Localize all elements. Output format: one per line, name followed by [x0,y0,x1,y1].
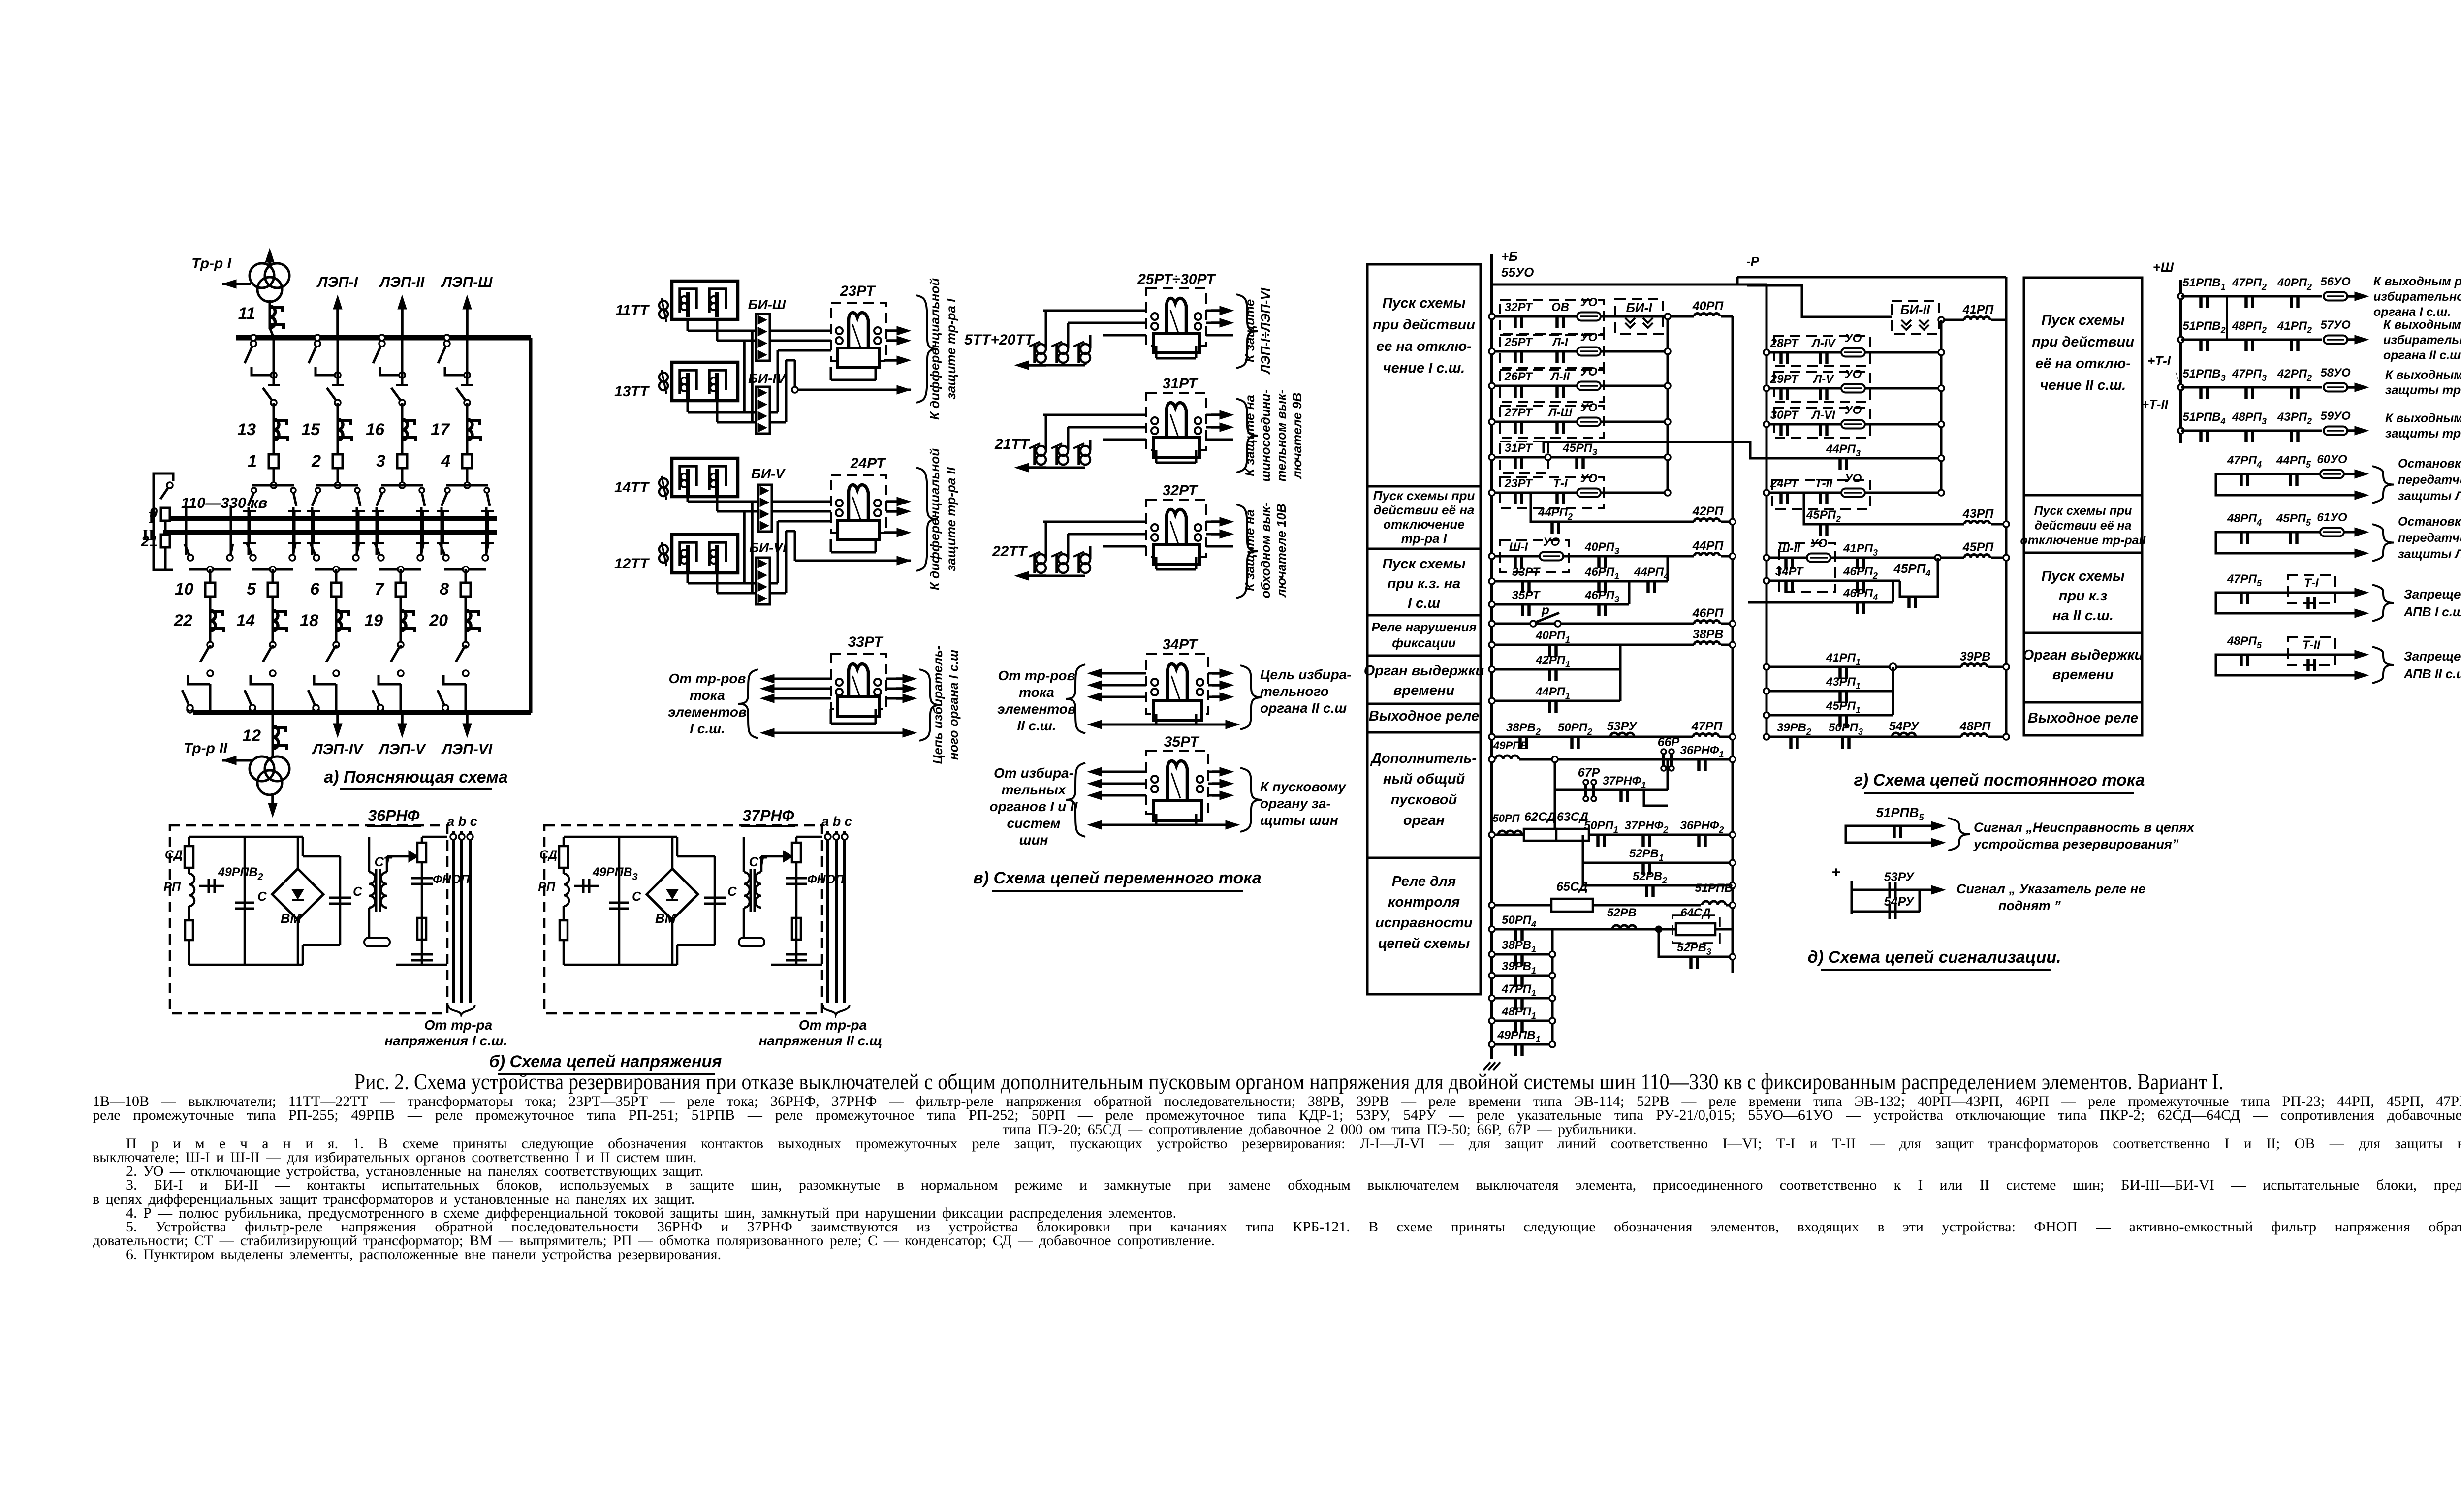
svg-text:18: 18 [300,611,318,630]
svg-text:действии её на: действии её на [2034,519,2131,533]
svg-text:11ТТ: 11ТТ [615,302,650,318]
svg-text:+Т-II: +Т-II [2142,397,2169,411]
svg-text:От тр-ров: От тр-ров [669,671,746,686]
svg-text:контроля: контроля [1388,894,1460,910]
svg-text:Орган выдержки: Орган выдержки [2023,647,2144,663]
svg-text:48РП1: 48РП1 [1501,1005,1536,1021]
svg-text:От тр-ра: От тр-ра [424,1017,492,1033]
svg-text:57УО: 57УО [2320,318,2351,332]
svg-text:38РВ: 38РВ [1693,628,1724,641]
svg-text:45РП1: 45РП1 [1826,699,1861,715]
svg-text:29РТ: 29РТ [1770,373,1799,386]
svg-text:49РПВ: 49РПВ [1493,739,1528,752]
svg-text:33РТ: 33РТ [848,634,884,650]
svg-text:б) Схема цепей напряжения: б) Схема цепей напряжения [489,1052,722,1071]
svg-text:50РП3: 50РП3 [1829,721,1863,737]
svg-text:С: С [257,889,267,904]
svg-text:6: 6 [310,580,320,598]
svg-text:40РП1: 40РП1 [1535,629,1570,645]
svg-text:52РВ3: 52РВ3 [1677,941,1711,957]
svg-text:БИ-IV: БИ-IV [748,371,787,386]
svg-text:31РТ: 31РТ [1163,376,1199,392]
svg-text:14ТТ: 14ТТ [614,479,650,496]
svg-text:К выходным реле: К выходным реле [2373,275,2461,288]
svg-text:защиты ЛЭП-IV: защиты ЛЭП-IV [2398,547,2461,561]
svg-text:47РП4: 47РП4 [2227,454,2262,470]
svg-text:УО: УО [1845,332,1862,345]
svg-text:К защите на: К защите на [1242,395,1257,476]
svg-text:59УО: 59УО [2320,409,2351,423]
svg-text:40РП2: 40РП2 [2277,276,2312,292]
svg-text:Пуск схемы: Пуск схемы [2041,568,2125,584]
svg-text:45РП2: 45РП2 [1806,508,1841,524]
svg-text:61УО: 61УО [2317,511,2347,524]
svg-text:Ш-I: Ш-I [1509,540,1528,554]
svg-text:35РТ: 35РТ [1164,734,1200,750]
svg-text:52РВ2: 52РВ2 [1633,870,1667,885]
svg-text:1: 1 [248,452,257,471]
svg-text:времени: времени [1393,683,1454,698]
svg-text:46РП1: 46РП1 [1584,566,1619,581]
svg-text:К выходным реле: К выходным реле [2385,411,2461,425]
svg-text:УО: УО [1845,368,1862,381]
svg-text:Л-IV: Л-IV [1811,337,1836,350]
svg-text:36РНФ: 36РНФ [368,807,419,824]
svg-text:40РП3: 40РП3 [1584,540,1619,556]
svg-text:36РНФ2: 36РНФ2 [1680,819,1724,835]
svg-text:66Р: 66Р [1658,735,1680,749]
svg-text:14: 14 [236,611,255,630]
svg-text:I с.ш: I с.ш [1408,596,1440,611]
svg-text:Пуск схемы: Пуск схемы [1382,556,1466,572]
svg-text:К дифференциальной: К дифференциальной [927,448,942,590]
svg-text:ФНОП: ФНОП [433,873,470,886]
svg-text:54РУ: 54РУ [1884,895,1915,909]
svg-text:a b c: a b c [447,814,477,829]
svg-text:Т-II: Т-II [1815,477,1833,490]
svg-text:ОВ: ОВ [1551,301,1569,314]
svg-text:41РП2: 41РП2 [2277,319,2312,335]
svg-text:К выходным реле: К выходным реле [2383,318,2461,332]
svg-text:110—330 кв: 110—330 кв [181,494,267,511]
svg-text:56УО: 56УО [2320,275,2351,288]
svg-text:13: 13 [237,420,256,439]
svg-text:Л-I: Л-I [1551,336,1568,349]
svg-text:р: р [1541,602,1549,617]
svg-text:8: 8 [440,580,449,598]
svg-text:32РТ: 32РТ [1505,301,1534,314]
svg-text:лючателе 10В: лючателе 10В [1274,504,1289,598]
svg-text:+: + [1831,864,1840,881]
svg-text:37РНФ2: 37РНФ2 [1625,819,1669,835]
svg-text:ного органа I с.ш: ного органа I с.ш [946,650,961,760]
svg-text:45РП3: 45РП3 [1562,441,1597,457]
svg-text:38РВ1: 38РВ1 [1502,939,1536,954]
svg-text:обходном вык-: обходном вык- [1258,503,1273,598]
svg-text:Л-Ш: Л-Ш [1547,406,1572,419]
svg-text:СД: СД [539,848,557,862]
svg-text:РП: РП [538,880,556,894]
svg-text:УО: УО [1543,535,1560,549]
svg-text:тельном вык-: тельном вык- [1274,390,1289,482]
svg-text:24РТ: 24РТ [1770,477,1799,490]
svg-text:11: 11 [238,304,255,323]
svg-text:защиты тр-ра I: защиты тр-ра I [2385,383,2461,397]
svg-text:шин: шин [1019,832,1048,848]
svg-text:Сигнал „Неисправность в цепях: Сигнал „Неисправность в цепях [1974,820,2195,835]
svg-text:54РУ: 54РУ [1889,720,1920,733]
svg-text:ЛЭП-VI: ЛЭП-VI [441,741,493,757]
svg-text:42РП1: 42РП1 [1535,654,1570,669]
svg-text:23РТ: 23РТ [840,283,876,299]
svg-text:БИ-II: БИ-II [1900,302,1930,317]
svg-text:7: 7 [375,580,385,598]
svg-text:35РТ: 35РТ [1512,589,1541,602]
svg-text:39РВ: 39РВ [1960,650,1991,663]
svg-text:46РП: 46РП [1692,606,1724,620]
svg-text:напряжения II с.щ: напряжения II с.щ [759,1033,883,1048]
svg-text:при действии: при действии [1373,317,1475,333]
svg-text:систем: систем [1007,816,1060,831]
svg-text:51РПВ1: 51РПВ1 [2182,276,2225,292]
svg-text:АПВ II с.ш: АПВ II с.ш [2403,666,2461,681]
svg-text:47РП: 47РП [1691,720,1723,733]
svg-text:чение I с.ш.: чение I с.ш. [1383,360,1465,376]
svg-text:+Б: +Б [1501,249,1518,264]
svg-text:ЛЭП-I: ЛЭП-I [316,274,358,290]
svg-text:31РТ: 31РТ [1505,441,1534,455]
svg-text:избирательного: избирательного [2383,333,2461,347]
svg-text:48РП4: 48РП4 [2227,512,2262,528]
svg-text:Т-II: Т-II [2303,638,2321,652]
svg-text:органу за-: органу за- [1260,796,1331,811]
svg-text:21: 21 [141,534,158,550]
svg-text:Сигнал „ Указатель реле не: Сигнал „ Указатель реле не [1956,882,2145,896]
svg-text:44РП3: 44РП3 [1826,442,1861,458]
svg-text:С: С [353,884,363,899]
svg-text:10: 10 [175,580,193,598]
svg-text:Орган выдержки: Орган выдержки [1364,663,1484,679]
svg-text:Т-I: Т-I [2304,576,2319,590]
svg-text:ЛЭП-II: ЛЭП-II [379,274,425,290]
svg-text:при действии: при действии [2032,334,2134,350]
svg-text:БИ-Ш: БИ-Ш [748,297,786,312]
svg-text:С: С [727,884,737,899]
svg-text:УО: УО [1580,296,1598,309]
svg-text:Тр-р I: Тр-р I [191,255,232,272]
svg-text:12: 12 [242,726,261,745]
svg-text:62СД: 62СД [1524,810,1556,824]
svg-text:58УО: 58УО [2320,366,2351,379]
svg-text:ный общий: ный общий [1383,771,1465,787]
svg-text:46РП2: 46РП2 [1843,565,1878,581]
svg-text:43РП2: 43РП2 [2277,410,2312,426]
svg-text:21ТТ: 21ТТ [994,436,1031,452]
svg-text:49РПВ2: 49РПВ2 [218,865,263,882]
svg-text:К выходным реле: К выходным реле [2385,368,2461,382]
svg-text:48РП5: 48РП5 [2227,634,2262,650]
svg-text:Реле для: Реле для [1392,874,1456,889]
svg-text:41РП: 41РП [1962,303,1994,316]
svg-text:Дополнитель-: Дополнитель- [1370,751,1477,766]
svg-text:Цель избира-: Цель избира- [1260,667,1352,682]
svg-text:органа II с.ш.: органа II с.ш. [2383,348,2461,362]
svg-text:Пуск схемы: Пуск схемы [1382,295,1466,311]
svg-text:19: 19 [364,611,383,630]
svg-text:55УО: 55УО [1501,265,1534,280]
svg-text:на II с.ш.: на II с.ш. [2052,608,2114,624]
svg-text:II с.ш.: II с.ш. [1017,718,1056,733]
svg-text:a b c: a b c [821,814,852,829]
svg-text:пусковой: пусковой [1391,792,1457,808]
svg-text:Ш-II: Ш-II [1778,542,1801,555]
svg-text:БИ-V: БИ-V [751,466,786,481]
svg-text:42РП: 42РП [1692,504,1724,518]
svg-text:60УО: 60УО [2317,453,2347,466]
svg-text:напряжения I с.ш.: напряжения I с.ш. [384,1033,507,1048]
svg-text:Реле нарушения: Реле нарушения [1371,620,1477,634]
svg-text:23РТ: 23РТ [1504,477,1534,490]
svg-text:передатчика: передатчика [2398,473,2461,487]
svg-text:г) Схема цепей постоянного: г) Схема цепей постоянного тока [1854,771,2145,789]
svg-text:32РТ: 32РТ [1163,482,1199,499]
svg-text:I с.ш.: I с.ш. [690,721,725,736]
svg-text:тр-ра I: тр-ра I [1401,531,1447,546]
svg-text:при к.з: при к.з [2059,588,2108,604]
svg-text:39РВ2: 39РВ2 [1777,721,1811,737]
svg-text:отключение тр-раII: отключение тр-раII [2020,534,2146,547]
svg-text:Цепь избиратель-: Цепь избиратель- [930,646,945,764]
svg-text:АПВ I с.ш: АПВ I с.ш [2403,604,2461,619]
svg-text:37РНФ1: 37РНФ1 [1603,774,1646,790]
svg-text:27РТ: 27РТ [1504,406,1534,419]
svg-text:47РП5: 47РП5 [2227,572,2262,588]
svg-text:элементов: элементов [997,701,1076,717]
svg-text:поднят ”: поднят ” [1998,898,2061,913]
svg-text:исправности: исправности [1375,915,1473,931]
svg-text:47РП3: 47РП3 [2232,367,2267,383]
svg-text:органа II с.ш: органа II с.ш [1260,700,1347,716]
svg-text:Выходное реле: Выходное реле [2028,710,2138,726]
svg-text:50РП2: 50РП2 [1558,721,1592,737]
svg-text:БИ-VI: БИ-VI [749,540,787,555]
svg-text:15: 15 [301,420,320,439]
svg-text:К дифференциальной: К дифференциальной [927,278,942,420]
svg-text:ЛЭП-I÷ЛЭП-VI: ЛЭП-I÷ЛЭП-VI [1258,287,1273,375]
svg-text:48РП3: 48РП3 [2232,410,2267,426]
svg-text:47РП1: 47РП1 [1501,982,1536,998]
svg-text:шиносоедини-: шиносоедини- [1258,389,1273,482]
svg-text:20: 20 [429,611,448,630]
svg-text:39РВ1: 39РВ1 [1502,960,1536,976]
svg-text:37РНФ: 37РНФ [742,807,794,824]
svg-text:при к.з. на: при к.з. на [1388,576,1461,592]
svg-text:передатчика: передатчика [2398,531,2461,545]
svg-text:УО: УО [1580,401,1598,414]
svg-text:-Р: -Р [1746,254,1760,269]
svg-text:Л-V: Л-V [1813,373,1834,386]
svg-text:4: 4 [441,452,450,471]
svg-text:ЛЭП-Ш: ЛЭП-Ш [441,274,493,290]
svg-text:К пусковому: К пусковому [1260,779,1347,794]
svg-text:органа I с.ш.: органа I с.ш. [2373,305,2451,319]
svg-text:22ТТ: 22ТТ [992,543,1028,560]
svg-text:43РП: 43РП [1962,507,1994,521]
svg-text:51РПВ: 51РПВ [1695,882,1733,895]
svg-text:Л-II: Л-II [1550,370,1570,383]
svg-text:44РП4: 44РП4 [1634,566,1669,581]
svg-text:устройства резервирования”: устройства резервирования” [1973,837,2179,851]
svg-text:13ТТ: 13ТТ [614,383,650,400]
svg-text:44РП2: 44РП2 [1538,506,1573,522]
svg-text:40РП: 40РП [1692,299,1724,313]
svg-text:д) Схема цепей сигнализации.: д) Схема цепей сигнализации. [1807,948,2061,967]
svg-text:Л-VI: Л-VI [1811,409,1835,422]
svg-text:+Ш: +Ш [2153,260,2174,275]
svg-text:УО: УО [1580,331,1598,344]
svg-text:49РПВ3: 49РПВ3 [592,865,638,882]
svg-text:лючателе 9В: лючателе 9В [1290,393,1304,480]
svg-text:отключение: отключение [1383,517,1465,532]
svg-text:52РВ: 52РВ [1607,906,1637,919]
svg-text:защите тр-ра II: защите тр-ра II [944,467,958,571]
svg-text:ЛЭП-IV: ЛЭП-IV [312,741,364,757]
svg-text:53РУ: 53РУ [1884,870,1915,884]
svg-text:5ТТ+20ТТ: 5ТТ+20ТТ [964,332,1035,348]
svg-text:УО: УО [1580,365,1598,378]
svg-text:46РП4: 46РП4 [1843,587,1878,602]
svg-text:СД: СД [165,848,183,862]
svg-text:51РПВ4: 51РПВ4 [2182,410,2225,426]
svg-text:16: 16 [366,420,385,439]
svg-text:45РП5: 45РП5 [2276,512,2311,528]
svg-text:С: С [632,889,642,904]
svg-text:26РТ: 26РТ [1504,370,1534,383]
svg-text:43РП1: 43РП1 [1826,675,1861,691]
svg-text:защиты тр-ра II: защиты тр-ра II [2385,427,2461,441]
svg-text:а) Поясняющая схема: а) Поясняющая схема [324,768,507,787]
svg-text:+Т-I: +Т-I [2147,353,2171,368]
svg-text:44РП1: 44РП1 [1535,685,1570,701]
svg-text:48РП2: 48РП2 [2232,319,2267,335]
svg-text:чение II с.ш.: чение II с.ш. [2040,378,2126,393]
svg-text:47РП2: 47РП2 [2232,276,2267,292]
svg-text:Запрещение: Запрещение [2404,649,2461,663]
svg-text:Запрещение: Запрещение [2404,587,2461,601]
svg-text:51РПВ5: 51РПВ5 [1876,805,1925,822]
svg-text:тельных: тельных [1002,782,1067,797]
svg-text:Т-I: Т-I [1553,477,1568,490]
svg-text:Остановка в ч: Остановка в ч [2398,457,2461,471]
svg-text:Тр-р II: Тр-р II [184,740,228,756]
svg-text:избирательного: избирательного [2373,290,2461,304]
svg-text:Остановка вч: Остановка вч [2398,515,2461,529]
svg-text:От тр-ров: От тр-ров [998,668,1075,683]
svg-text:52РВ1: 52РВ1 [1629,847,1664,863]
svg-text:67Р: 67Р [1578,766,1600,780]
svg-text:щиты шин: щиты шин [1260,813,1338,828]
svg-text:50РП: 50РП [1493,812,1520,824]
svg-text:тока: тока [690,688,725,703]
svg-text:элементов: элементов [668,704,747,720]
svg-text:44РП: 44РП [1692,539,1724,553]
svg-text:17: 17 [431,420,450,439]
svg-text:50РП4: 50РП4 [1502,913,1536,929]
svg-text:45РП: 45РП [1962,540,1994,554]
svg-text:защите тр-ра I: защите тр-ра I [944,298,958,400]
svg-text:46РП3: 46РП3 [1584,589,1619,604]
svg-text:УО: УО [1810,537,1828,550]
svg-text:Пуск схемы при: Пуск схемы при [1373,488,1475,503]
svg-text:3: 3 [376,452,385,471]
svg-text:защиты ЛЭП-I: защиты ЛЭП-I [2398,489,2461,503]
svg-text:42РП2: 42РП2 [2277,367,2312,383]
svg-text:22: 22 [173,611,192,630]
svg-text:64СД: 64СД [1680,906,1710,919]
svg-text:53РУ: 53РУ [1607,720,1638,733]
svg-text:в) Схема цепей переменного: в) Схема цепей переменного тока [973,869,1262,887]
svg-text:времени: времени [2052,667,2114,683]
svg-text:ЛЭП-V: ЛЭП-V [378,741,427,757]
svg-text:38РВ2: 38РВ2 [1506,721,1541,737]
svg-text:45РП4: 45РП4 [1893,561,1931,578]
svg-text:К защите: К защите [1242,299,1257,362]
svg-text:тока: тока [1019,685,1054,700]
svg-text:51РПВ2: 51РПВ2 [2182,319,2225,335]
svg-text:49РПВ1: 49РПВ1 [1497,1029,1540,1044]
svg-text:41РП3: 41РП3 [1843,542,1878,558]
svg-text:48РП: 48РП [1959,720,1991,733]
svg-text:ее на отклю-: ее на отклю- [1376,339,1472,354]
svg-text:Пуск схемы: Пуск схемы [2041,313,2125,328]
svg-text:тельного: тельного [1260,684,1329,699]
svg-text:Выходное реле: Выходное реле [1369,708,1479,724]
svg-text:24РТ: 24РТ [850,455,886,472]
svg-text:УО: УО [1845,404,1862,417]
svg-text:9: 9 [149,505,158,521]
svg-text:цепей схемы: цепей схемы [1378,936,1470,951]
svg-text:БИ-I: БИ-I [1626,300,1653,315]
svg-text:Пуск схемы при: Пуск схемы при [2034,504,2132,518]
svg-text:25РТ÷30РТ: 25РТ÷30РТ [1137,271,1216,287]
svg-text:2: 2 [311,452,321,471]
svg-text:действии её на: действии её на [1374,503,1475,517]
svg-text:К защите на: К защите на [1242,509,1257,591]
svg-text:30РТ: 30РТ [1770,409,1799,422]
svg-text:12ТТ: 12ТТ [614,556,650,572]
svg-text:УО: УО [1580,472,1598,485]
svg-text:34РТ: 34РТ [1775,565,1804,578]
svg-text:36РНФ1: 36РНФ1 [1680,744,1724,759]
svg-text:ФНОП: ФНОП [807,873,845,886]
svg-text:5: 5 [247,580,256,598]
svg-text:28РТ: 28РТ [1770,337,1799,350]
svg-text:33РТ: 33РТ [1512,566,1541,579]
svg-text:От тр-ра: От тр-ра [799,1017,867,1033]
svg-text:УО: УО [1845,472,1862,485]
svg-text:65СД: 65СД [1556,880,1588,894]
svg-text:51РПВ3: 51РПВ3 [2182,367,2225,383]
svg-text:41РП1: 41РП1 [1826,651,1861,667]
svg-text:РП: РП [163,880,181,894]
svg-text:25РТ: 25РТ [1504,336,1534,349]
svg-text:фиксации: фиксации [1392,635,1456,650]
svg-text:От избира-: От избира- [994,765,1073,781]
svg-text:44РП5: 44РП5 [2276,454,2311,470]
svg-text:34РТ: 34РТ [1163,636,1199,653]
svg-text:органов I и II: органов I и II [989,799,1078,814]
svg-text:орган: орган [1403,813,1445,828]
